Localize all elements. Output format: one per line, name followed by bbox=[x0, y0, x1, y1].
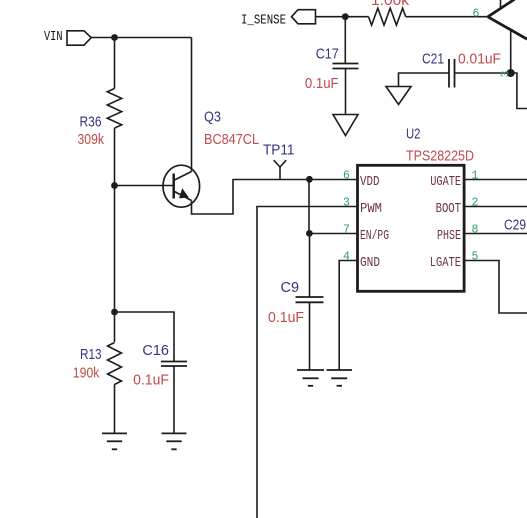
wire VIN junction down to R36 bbox=[114, 38, 116, 89]
test point TP11 bbox=[274, 160, 287, 167]
ground (bars) C9 bbox=[297, 370, 324, 386]
svg-text:0.1uF: 0.1uF bbox=[305, 75, 339, 92]
svg-text:TP11: TP11 bbox=[263, 141, 295, 158]
wire base junction to Q3 base bbox=[115, 185, 174, 187]
svg-text:GND: GND bbox=[360, 256, 380, 271]
wire EN/PG node to pin bbox=[309, 233, 357, 235]
svg-text:5: 5 bbox=[472, 250, 479, 263]
svg-text:0.01uF: 0.01uF bbox=[458, 51, 501, 68]
wire UGATE pin bbox=[464, 179, 527, 181]
svg-text:Q3: Q3 bbox=[204, 108, 221, 125]
wire C16 to ground bbox=[173, 366, 175, 433]
ground (triangle) C21 bbox=[386, 87, 411, 105]
ground (triangle) C17 bbox=[333, 115, 358, 136]
svg-text:3: 3 bbox=[500, 71, 513, 78]
wire C21 left to ground bbox=[399, 73, 450, 87]
svg-text:C29: C29 bbox=[504, 216, 526, 233]
wire C17 from I_SENSE junction bbox=[344, 17, 346, 64]
wire R36 to base junction bbox=[114, 128, 116, 185]
IC U2 box bbox=[358, 165, 465, 291]
svg-text:7: 7 bbox=[343, 223, 349, 236]
svg-text:BOOT: BOOT bbox=[436, 202, 461, 217]
capacitor C16 bbox=[161, 361, 187, 363]
svg-text:I_SENSE: I_SENSE bbox=[241, 13, 286, 29]
wire C21 node to right edge bbox=[511, 73, 527, 109]
svg-text:EN/PG: EN/PG bbox=[360, 229, 389, 244]
svg-text:LGATE: LGATE bbox=[430, 256, 461, 271]
resistor R13 bbox=[108, 343, 122, 385]
wire op-amp bottom edge down to C21 node bbox=[510, 30, 512, 73]
capacitor C17 bbox=[333, 63, 359, 65]
wire PWM pin to long vertical bbox=[257, 207, 357, 518]
wire I_SENSE to resistor bbox=[316, 16, 369, 18]
svg-text:1.00k: 1.00k bbox=[371, 0, 410, 9]
resistor R? 1.00k bbox=[369, 8, 406, 25]
wire R13 node down to resistor bbox=[114, 312, 116, 342]
wire C17 to ground bbox=[345, 69, 347, 115]
ground (bars) R13 bbox=[102, 433, 127, 449]
svg-text:BC847CL: BC847CL bbox=[204, 131, 259, 148]
svg-text:C21: C21 bbox=[422, 51, 444, 68]
wire PHSE pin bbox=[464, 233, 527, 235]
svg-text:U2: U2 bbox=[406, 125, 421, 142]
transistor Q3 bbox=[163, 165, 200, 207]
ground (bars) U2 GND bbox=[327, 370, 353, 386]
svg-text:0.1uF: 0.1uF bbox=[268, 309, 304, 326]
wire resistor to op-amp bbox=[406, 16, 488, 18]
svg-text:C17: C17 bbox=[316, 46, 339, 63]
svg-text:4: 4 bbox=[343, 250, 350, 263]
svg-text:UGATE: UGATE bbox=[430, 175, 461, 190]
svg-text:2: 2 bbox=[472, 196, 479, 209]
svg-text:PWM: PWM bbox=[360, 202, 382, 217]
wire pin stub top of op-amp bbox=[500, 0, 502, 10]
node VDD junction bbox=[306, 176, 313, 183]
svg-text:TPS28225D: TPS28225D bbox=[406, 148, 474, 165]
svg-text:6: 6 bbox=[343, 169, 350, 182]
wire VIN to collector corner bbox=[91, 37, 192, 39]
svg-text:VIN: VIN bbox=[44, 29, 63, 45]
svg-text:0.1uF: 0.1uF bbox=[133, 371, 169, 388]
svg-text:6: 6 bbox=[473, 8, 480, 21]
wire base junction down to R13 node bbox=[114, 186, 116, 313]
op-amp U? edges bbox=[488, 0, 527, 39]
resistor R36 bbox=[107, 89, 121, 129]
wire collector vertical bbox=[191, 38, 193, 172]
svg-text:C16: C16 bbox=[142, 342, 169, 359]
connector I_SENSE bbox=[292, 10, 316, 24]
capacitor C21 bbox=[448, 59, 450, 88]
svg-text:3: 3 bbox=[343, 196, 350, 209]
wire R13 to ground bbox=[114, 385, 116, 434]
node VIN junction bbox=[111, 34, 118, 41]
wire C9 to ground bbox=[309, 302, 311, 369]
wire C21 right to node bbox=[455, 72, 511, 74]
wire LGATE pin bbox=[464, 261, 527, 314]
wire VDD node down to EN/PG node bbox=[308, 180, 310, 234]
capacitor C9 bbox=[296, 296, 324, 298]
svg-text:R36: R36 bbox=[80, 113, 102, 130]
node base junction bbox=[111, 182, 118, 189]
ground (bars) C16 bbox=[162, 433, 187, 449]
svg-text:8: 8 bbox=[472, 223, 479, 236]
wire Q3 emitter path bbox=[192, 180, 358, 215]
svg-text:PHSE: PHSE bbox=[437, 229, 461, 244]
wire EN/PG node down to C9 bbox=[309, 234, 311, 298]
svg-text:190k: 190k bbox=[73, 365, 100, 382]
connector VIN bbox=[67, 31, 91, 45]
wire R13 node to C16 bbox=[115, 312, 175, 362]
node I_SENSE junction bbox=[342, 13, 349, 20]
svg-text:C9: C9 bbox=[281, 279, 300, 296]
node C21 junction bbox=[507, 69, 515, 77]
svg-text:309k: 309k bbox=[78, 131, 105, 148]
node R13 junction bbox=[111, 309, 118, 316]
wire BOOT pin bbox=[464, 206, 527, 208]
svg-text:VDD: VDD bbox=[360, 175, 380, 190]
node EN/PG junction bbox=[306, 230, 313, 237]
svg-text:1: 1 bbox=[472, 169, 479, 182]
wire U2 GND pin down bbox=[339, 261, 357, 370]
svg-text:R13: R13 bbox=[80, 346, 102, 363]
